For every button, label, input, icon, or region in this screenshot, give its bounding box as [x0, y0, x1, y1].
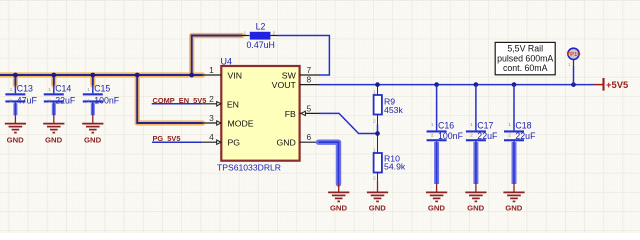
svg-text:8: 8	[306, 75, 311, 85]
pin 2 EN	[202, 94, 239, 110]
pin 5 FB	[285, 103, 320, 119]
svg-text:453k: 453k	[384, 105, 403, 115]
junction dot VOUT/C18	[512, 82, 517, 87]
wire R9 to junction	[377, 125, 379, 134]
svg-text:2: 2	[209, 94, 214, 104]
junction dot VIN/C13	[13, 73, 18, 78]
IC U4 body	[217, 57, 300, 173]
pin 7 SW	[282, 65, 319, 81]
ground GND below C15	[82, 115, 103, 133]
svg-text:3: 3	[209, 113, 214, 123]
wire C16 to GND (highlighted blue)	[434, 141, 439, 184]
pin 1 VIN	[202, 65, 242, 81]
svg-text:1: 1	[508, 122, 511, 127]
pin 4 PG	[202, 132, 240, 148]
svg-text:100nF: 100nF	[438, 131, 464, 141]
svg-text:1: 1	[373, 147, 376, 152]
pin 6 GND	[276, 132, 319, 148]
svg-text:pulsed 600mA: pulsed 600mA	[497, 53, 553, 63]
svg-text:C13: C13	[17, 83, 33, 93]
svg-text:GND: GND	[428, 203, 446, 212]
wire FB net	[319, 113, 378, 133]
svg-text:5,5V Rail: 5,5V Rail	[507, 44, 543, 54]
svg-text:2: 2	[48, 99, 51, 104]
note text box 5,5V Rail	[495, 42, 555, 74]
wire C13 to GND (highlighted blue)	[13, 102, 17, 115]
svg-text:7: 7	[306, 65, 311, 75]
svg-text:L2: L2	[256, 22, 266, 32]
svg-text:MODE: MODE	[228, 119, 254, 129]
svg-text:2: 2	[373, 176, 376, 181]
capacitor C16	[427, 85, 464, 142]
svg-text:PG: PG	[228, 138, 241, 148]
junction dot VOUT/C16	[434, 82, 439, 87]
wire VOUT rail	[319, 84, 594, 86]
resistor R9	[373, 85, 403, 125]
svg-text:1: 1	[373, 89, 376, 94]
pin 8 VOUT	[272, 75, 320, 91]
svg-text:1: 1	[470, 122, 473, 127]
svg-text:2: 2	[470, 133, 473, 138]
capacitor C18	[504, 85, 536, 142]
wire C15 to GND (highlighted blue)	[91, 102, 95, 115]
svg-text:GND: GND	[7, 136, 25, 145]
svg-text:1: 1	[431, 122, 434, 127]
svg-text:cont. 60mA: cont. 60mA	[503, 63, 548, 73]
svg-text:VOUT: VOUT	[272, 80, 297, 90]
capacitor C15	[83, 83, 120, 105]
junction dot VOUT/R9	[375, 82, 380, 87]
svg-text:GND: GND	[84, 136, 102, 145]
svg-text:GND: GND	[276, 138, 295, 148]
ground GND below C14	[43, 115, 64, 133]
wire VIN rail core	[0, 36, 242, 124]
svg-text:C15: C15	[94, 83, 110, 93]
svg-text:2: 2	[10, 99, 13, 104]
svg-text:22uF: 22uF	[515, 131, 536, 141]
svg-text:TP19: TP19	[567, 52, 582, 58]
inductor L2	[242, 22, 278, 51]
wire GND pin6 (highlighted blue)	[319, 142, 339, 184]
junction dot FB/R9/R10	[375, 131, 380, 136]
svg-text:2: 2	[431, 133, 434, 138]
pin 3 MODE	[202, 113, 253, 129]
ground GND below C17	[465, 184, 486, 202]
junction dot VIN/C14	[51, 73, 56, 78]
test point TP19	[567, 48, 582, 84]
svg-text:C14: C14	[55, 83, 71, 93]
svg-text:VIN: VIN	[228, 71, 242, 81]
svg-text:GND: GND	[45, 136, 63, 145]
wire VIN rail highlighted glow (net VIN)	[0, 36, 242, 124]
svg-text:2: 2	[273, 30, 276, 35]
wire C17 to GND (highlighted blue)	[473, 141, 478, 184]
junction dot VIN/MODE branch	[135, 73, 140, 78]
svg-text:47uF: 47uF	[17, 96, 38, 106]
svg-text:6: 6	[306, 132, 311, 142]
svg-text:GND: GND	[369, 203, 387, 212]
ground GND below C13	[5, 115, 26, 133]
svg-text:EN: EN	[227, 100, 239, 110]
junction dot VOUT/TP19	[571, 82, 576, 87]
ground GND below C16	[426, 184, 447, 202]
wire L2 to SW pin	[278, 36, 330, 76]
svg-text:5: 5	[306, 103, 311, 113]
svg-text:SW: SW	[282, 71, 297, 81]
svg-text:0.47uH: 0.47uH	[247, 40, 275, 50]
svg-text:2: 2	[373, 119, 376, 124]
svg-text:1: 1	[209, 65, 214, 75]
svg-text:C18: C18	[515, 120, 531, 130]
svg-text:1: 1	[10, 87, 13, 92]
svg-text:GND: GND	[330, 203, 348, 212]
junction dot VIN/C15	[90, 73, 95, 78]
wire C18 to GND (highlighted blue)	[512, 141, 517, 184]
svg-text:1: 1	[87, 87, 90, 92]
svg-text:22uF: 22uF	[477, 131, 498, 141]
capacitor C13	[5, 83, 37, 105]
power port +5V5	[594, 78, 629, 91]
junction dot VIN/L2 branch	[189, 73, 194, 78]
svg-text:TPS61033DRLR: TPS61033DRLR	[217, 162, 281, 172]
capacitor C14	[44, 83, 76, 105]
wire C14 to GND (highlighted blue)	[52, 102, 56, 115]
svg-text:+5V5: +5V5	[606, 79, 628, 90]
capacitor C17	[466, 85, 498, 142]
wire EN net	[152, 103, 203, 105]
svg-text:22uF: 22uF	[55, 96, 76, 106]
ground GND below R10	[367, 181, 388, 201]
svg-text:1: 1	[244, 30, 247, 35]
svg-text:1: 1	[48, 87, 51, 92]
svg-text:2: 2	[508, 133, 511, 138]
svg-text:FB: FB	[285, 109, 296, 119]
wire PG net	[152, 141, 202, 143]
svg-text:U4: U4	[221, 57, 233, 67]
svg-text:GND: GND	[505, 203, 523, 212]
svg-text:2: 2	[87, 99, 90, 104]
svg-text:100nF: 100nF	[94, 96, 120, 106]
resistor R10	[373, 134, 406, 182]
ground GND below C18	[503, 184, 524, 202]
svg-text:4: 4	[209, 132, 214, 142]
ground GND below pin6	[328, 184, 349, 202]
svg-text:C17: C17	[477, 120, 493, 130]
junction dot VOUT/C17	[474, 82, 479, 87]
svg-text:C16: C16	[438, 120, 454, 130]
svg-text:54.9k: 54.9k	[384, 161, 406, 171]
svg-text:1: 1	[568, 62, 571, 67]
svg-text:GND: GND	[467, 203, 485, 212]
